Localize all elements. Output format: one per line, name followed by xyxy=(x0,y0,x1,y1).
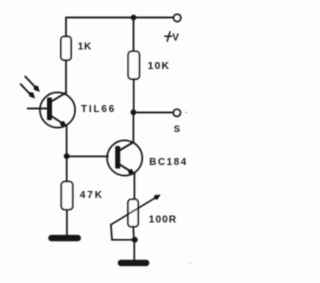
wire junction to terminal S xyxy=(133,112,173,114)
wire Q1 base stub xyxy=(28,108,48,110)
transistor Q1 collector line xyxy=(51,92,67,102)
resistor R 47K body xyxy=(61,182,72,210)
node junction top rail xyxy=(131,15,137,21)
wire junction to Q2 collector xyxy=(132,112,134,142)
label +V plus sign xyxy=(165,32,172,41)
transistor Q1 TIL66 circle xyxy=(40,92,75,127)
svg-text:10K: 10K xyxy=(148,60,171,72)
transistor Q2 collector line xyxy=(119,142,134,151)
transistor Q2 emitter arrowhead xyxy=(128,169,135,174)
trimmer wiper arrow xyxy=(111,198,155,224)
wire 47K to ground xyxy=(66,210,68,236)
transistor Q1 base bar xyxy=(47,98,52,121)
wire top junction to 10K xyxy=(133,18,135,52)
node junction below Q1 xyxy=(64,153,70,159)
wire top rail xyxy=(66,17,173,19)
wire R1K to TIL66 collector xyxy=(65,60,67,93)
transistor Q1 emitter arrowhead xyxy=(60,121,67,126)
svg-text:TIL66: TIL66 xyxy=(81,104,116,115)
svg-text:S: S xyxy=(174,124,180,135)
transistor Q1 emitter line xyxy=(51,116,67,127)
wire 10K to S junction xyxy=(133,79,135,112)
wire wiper return xyxy=(111,225,135,240)
node junction bottom xyxy=(132,237,138,243)
light arrow 1 xyxy=(25,77,34,87)
ground left xyxy=(48,235,81,241)
wire junction to right ground xyxy=(133,240,135,261)
transistor Q2 BC184 circle xyxy=(107,140,142,175)
svg-text:47K: 47K xyxy=(80,190,104,201)
wire 100R bottom to junction xyxy=(132,227,135,240)
speck right of S terminal xyxy=(186,112,188,114)
terminal S xyxy=(173,109,180,116)
node junction S xyxy=(131,109,137,115)
wire top-left drop to R1 xyxy=(65,18,67,38)
wire junction to 47K xyxy=(66,156,68,182)
ground right xyxy=(118,260,150,266)
svg-text:1K: 1K xyxy=(78,42,92,53)
svg-text:V: V xyxy=(172,33,179,44)
light arrow 2 xyxy=(21,84,30,94)
transistor Q2 base bar xyxy=(115,146,120,169)
resistor R 1K body xyxy=(61,37,71,61)
wire Q1 emitter down xyxy=(66,126,68,156)
svg-text:100R: 100R xyxy=(149,215,177,226)
speck bottom right xyxy=(190,263,191,264)
terminal +V xyxy=(174,14,181,21)
wire Q2 emitter to 100R xyxy=(133,174,135,200)
resistor R 10K body xyxy=(128,51,139,79)
svg-text:BC184: BC184 xyxy=(149,157,188,168)
resistor R 100R body xyxy=(128,199,138,226)
transistor Q2 emitter line xyxy=(119,164,135,174)
wire junction to Q2 base xyxy=(67,155,108,157)
